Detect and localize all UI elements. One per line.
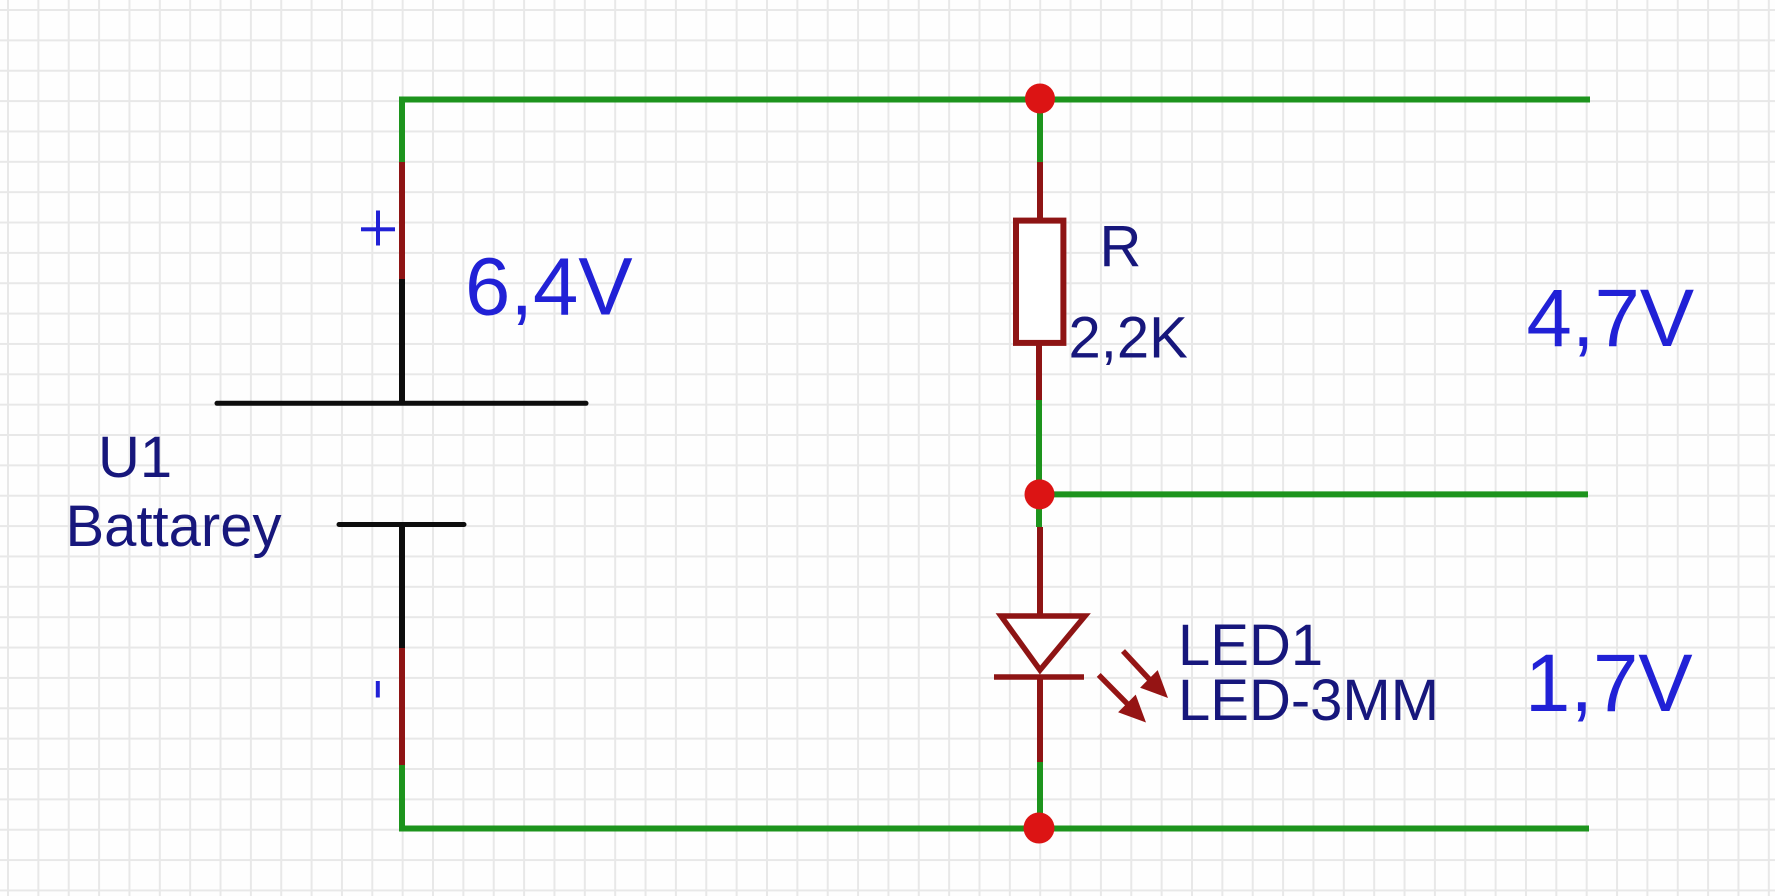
svg-text:Battarey: Battarey bbox=[66, 494, 282, 559]
battery - pin (dark red segment) bbox=[399, 648, 405, 765]
wire resistor top pin green segment bbox=[1037, 100, 1043, 163]
resistor R bottom pin (dark red) bbox=[1036, 343, 1042, 400]
LED1 light arrow lower bbox=[1099, 675, 1146, 723]
resistor R body bbox=[1016, 221, 1063, 343]
wire top net from battery + to resistor and right bbox=[402, 100, 1590, 163]
battery U1 top lead (black) bbox=[399, 279, 405, 403]
junction node top (resistor top / +rail) bbox=[1025, 84, 1055, 114]
wire LED to bottom rail (green) bbox=[1037, 762, 1043, 829]
svg-text:U1: U1 bbox=[98, 425, 172, 490]
junction node mid (R / LED / 4,7V tap) bbox=[1025, 479, 1055, 509]
battery U1 bottom lead (black) bbox=[399, 525, 405, 649]
battery plus label bbox=[361, 211, 395, 246]
wire mid net to right bbox=[1039, 491, 1588, 497]
wire bottom net from battery - to bottom rail bbox=[402, 765, 1589, 829]
battery minus label bbox=[376, 681, 380, 698]
svg-text:6,4V: 6,4V bbox=[465, 242, 633, 333]
svg-text:1,7V: 1,7V bbox=[1525, 638, 1693, 729]
junction node bottom (LED cathode / -rail) bbox=[1024, 813, 1055, 844]
svg-text:2,2K: 2,2K bbox=[1069, 306, 1189, 371]
svg-text:R: R bbox=[1100, 214, 1142, 279]
LED1 cathode bar bbox=[994, 674, 1084, 680]
svg-text:4,7V: 4,7V bbox=[1527, 273, 1695, 364]
LED1 triangle bbox=[1001, 616, 1085, 670]
battery U1 negative plate bbox=[339, 522, 464, 527]
LED1 light arrow upper bbox=[1123, 651, 1168, 698]
wire battery + pin (dark red segment) bbox=[399, 162, 405, 279]
resistor R top pin (dark red) bbox=[1037, 162, 1043, 221]
wire mid node to LED (green stub) bbox=[1036, 494, 1042, 527]
LED1 cathode pin (dark red) bbox=[1037, 677, 1043, 762]
wire resistor to mid node (green) bbox=[1036, 400, 1042, 494]
svg-text:LED-3MM: LED-3MM bbox=[1178, 668, 1439, 733]
battery U1 positive plate bbox=[217, 401, 586, 406]
LED1 anode pin (dark red) bbox=[1037, 527, 1043, 618]
